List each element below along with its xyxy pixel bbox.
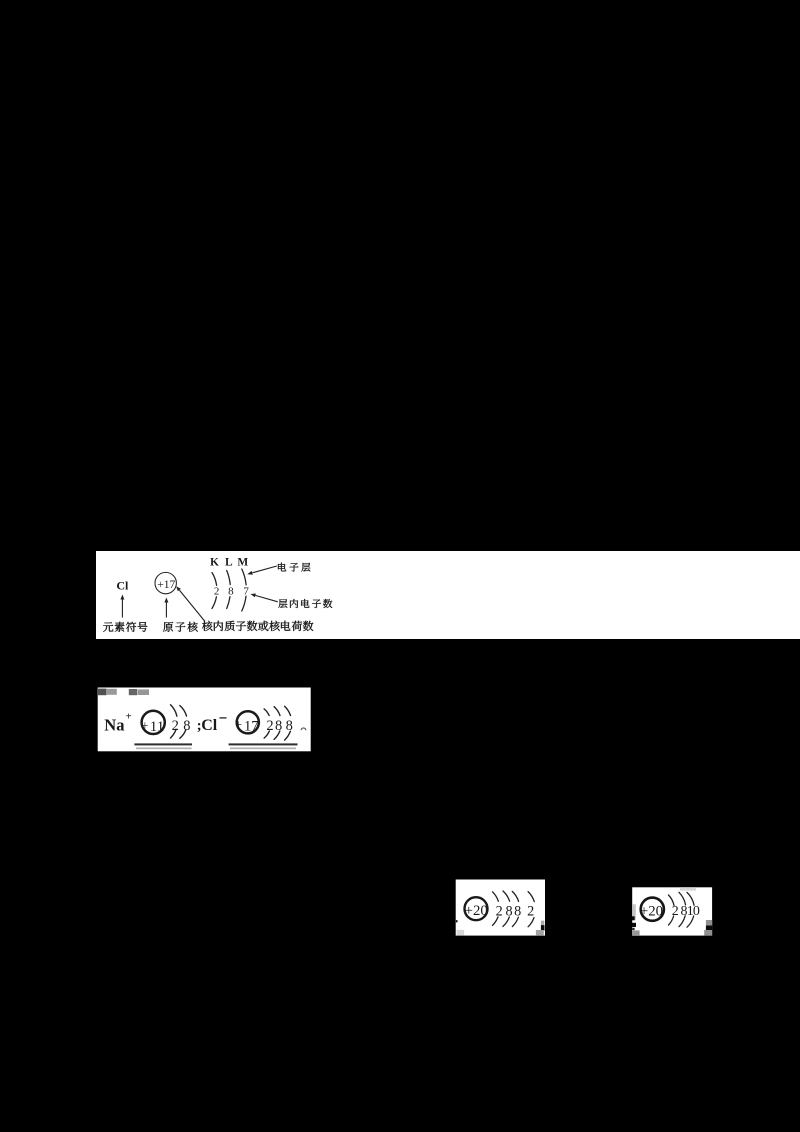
Na nucleus circle +11 bbox=[142, 711, 165, 734]
svg-text:17: 17 bbox=[244, 718, 259, 734]
selection handle bottom-right bbox=[704, 930, 712, 936]
arrow from 电子层 to shells bbox=[252, 566, 277, 573]
diagonal arrow from 核内质子数 label to nucleus bbox=[179, 590, 205, 621]
svg-text:+17: +17 bbox=[157, 579, 175, 591]
shell arc 1 bbox=[669, 895, 675, 906]
shell arc 2 bbox=[679, 892, 686, 905]
svg-text:8: 8 bbox=[506, 904, 513, 920]
Cl shell arc 3 bbox=[285, 706, 291, 715]
gray+black anchor marks right edge bbox=[706, 920, 712, 926]
svg-text:7: 7 bbox=[243, 586, 249, 598]
shell arc 1 bbox=[493, 892, 499, 902]
L shell arc bbox=[227, 571, 231, 585]
svg-text:8: 8 bbox=[228, 586, 234, 598]
svg-text:L: L bbox=[225, 556, 233, 568]
svg-text:8: 8 bbox=[275, 718, 282, 734]
svg-text:8: 8 bbox=[183, 718, 190, 734]
label 电子层 (electron shells) bbox=[278, 563, 286, 572]
up arrow to Cl bbox=[121, 600, 123, 618]
svg-text:10: 10 bbox=[687, 904, 700, 919]
svg-text:M: M bbox=[237, 556, 248, 568]
svg-text:K: K bbox=[210, 556, 219, 568]
small circle punctuation 。 bbox=[301, 728, 306, 730]
nucleus circle +17 bbox=[155, 572, 176, 593]
gray+black anchor marks right edge bbox=[541, 921, 544, 926]
Cl shell arc 2 bbox=[274, 707, 280, 716]
nucleus circle +20 bbox=[465, 897, 488, 920]
white panel A: Cl annotated diagram bbox=[96, 551, 800, 639]
svg-text:+20: +20 bbox=[465, 903, 488, 919]
selection handle bottom-left bbox=[632, 930, 639, 935]
svg-text:2: 2 bbox=[496, 904, 503, 920]
shell arc 3 bbox=[512, 891, 518, 901]
label 元素符号 (element symbol) bbox=[103, 622, 113, 632]
Cl shell arc 1 bbox=[264, 709, 269, 716]
black nub on left edge bbox=[456, 920, 458, 922]
shell arc 2 bbox=[503, 891, 510, 901]
K shell arc bbox=[212, 573, 217, 586]
white panel C: Ca atom structure 2 8 8 2 bbox=[455, 879, 546, 937]
svg-text:2: 2 bbox=[266, 718, 273, 734]
svg-text:Cl: Cl bbox=[201, 717, 218, 734]
svg-text:+20: +20 bbox=[640, 903, 663, 919]
svg-text:2: 2 bbox=[672, 904, 679, 919]
svg-text:8: 8 bbox=[286, 718, 293, 734]
white panel D: Ca2+ ion structure 2 8 10 bbox=[632, 887, 713, 936]
underline below Na structure bbox=[134, 743, 192, 745]
white panel B: Na+ and Cl- ion structures bbox=[97, 687, 311, 752]
svg-text:Cl: Cl bbox=[116, 579, 129, 593]
light gray strip top edge bbox=[680, 887, 696, 890]
svg-text:11: 11 bbox=[150, 719, 164, 735]
svg-text:+: + bbox=[141, 719, 148, 733]
underline below Cl structure bbox=[229, 743, 298, 745]
shell arc 3 bbox=[687, 892, 694, 905]
svg-text:2: 2 bbox=[214, 586, 220, 598]
svg-text:+: + bbox=[235, 718, 242, 732]
shell arc 4 bbox=[528, 892, 534, 902]
faint gray smudge remnants top-left bbox=[97, 689, 107, 696]
svg-text:8: 8 bbox=[514, 904, 521, 920]
selection handle bottom-left bbox=[457, 930, 465, 936]
black anchor marks left edge bbox=[632, 916, 635, 920]
Na shell arc 2 bbox=[180, 706, 187, 717]
selection handle bottom-right bbox=[536, 930, 544, 936]
Na shell arc 1 bbox=[171, 705, 177, 716]
up arrow to nucleus bbox=[165, 603, 167, 618]
gray sliver left edge bbox=[632, 904, 636, 920]
nucleus circle +20 bbox=[641, 898, 664, 921]
label 原子核 (nucleus) bbox=[163, 622, 173, 632]
svg-text:Na: Na bbox=[104, 715, 124, 734]
label 核内质子数或核电荷数 (protons / nuclear charge) bbox=[202, 621, 212, 631]
label 层内电子数 (electrons per shell) bbox=[278, 599, 287, 608]
svg-text:2: 2 bbox=[527, 904, 534, 920]
svg-text:+: + bbox=[126, 712, 132, 723]
M shell arc bbox=[242, 569, 246, 585]
arrow from 层内电子数 to count 7 bbox=[255, 595, 277, 601]
Cl nucleus circle +17 bbox=[237, 711, 259, 733]
svg-text:2: 2 bbox=[172, 718, 179, 734]
